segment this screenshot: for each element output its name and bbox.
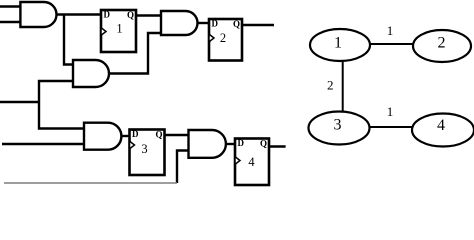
svg-text:3: 3 (141, 142, 147, 156)
wire input B to G1 (0, 21, 20, 23)
wire G2 output to FF2 D (198, 22, 210, 24)
svg-text:4: 4 (437, 117, 445, 134)
AND gate G2 (161, 11, 198, 35)
svg-text:D: D (238, 138, 245, 148)
svg-text:Q: Q (260, 138, 267, 148)
wire G1 output branch down to G3 input (64, 15, 73, 65)
svg-text:D: D (212, 18, 219, 28)
wire G1 output to FF1 D (57, 13, 102, 15)
FF4 clock input (235, 157, 240, 165)
svg-text:3: 3 (334, 116, 342, 133)
AND gate G3 (73, 60, 109, 87)
svg-text:1: 1 (334, 34, 342, 51)
svg-text:Q: Q (127, 10, 134, 20)
wire clock riser to G5 input (177, 151, 189, 184)
graph edge 1-3 (342, 61, 344, 112)
graph edge 1-2 (370, 43, 413, 45)
svg-text:Q: Q (155, 129, 162, 139)
svg-text:2: 2 (438, 34, 446, 51)
wire G3 output up to G2 input (109, 33, 161, 74)
flip-flop FF2 (209, 19, 242, 61)
svg-text:1: 1 (116, 22, 122, 36)
wire G4 output to FF3 D (121, 135, 129, 137)
AND gate G1 (20, 2, 56, 27)
AND gate G5 (189, 130, 226, 158)
wire input C (0, 101, 39, 103)
wire input D to G4 (2, 143, 84, 145)
wire FF4 Q output (269, 145, 286, 147)
svg-text:4: 4 (248, 155, 255, 169)
wire FF3 Q to G5 input (165, 134, 189, 136)
wire input A to G1 (0, 5, 20, 7)
svg-text:1: 1 (387, 104, 394, 119)
svg-text:D: D (104, 9, 111, 19)
wire clock line (gray) (4, 182, 177, 184)
FF2 clock input (209, 34, 214, 42)
wire vertical bus to G3 and G4 inputs (39, 81, 84, 129)
svg-text:1: 1 (387, 23, 394, 38)
svg-text:2: 2 (327, 78, 334, 93)
graph node 1 (310, 29, 370, 61)
flip-flop FF3 (130, 130, 165, 176)
FF3 clock input (130, 141, 135, 149)
flip-flop FF4 (235, 139, 269, 186)
svg-text:Q: Q (233, 19, 240, 29)
graph node 4 (412, 114, 474, 147)
AND gate G4 (84, 123, 121, 150)
graph node 2 (413, 30, 471, 62)
svg-text:2: 2 (220, 31, 226, 45)
wire FF2 Q output (242, 24, 274, 26)
flip-flop FF1 (101, 10, 136, 52)
svg-text:D: D (132, 129, 139, 139)
graph node 3 (309, 112, 370, 145)
wire G5 output to FF4 D (226, 143, 235, 145)
graph edge 3-4 (370, 126, 413, 128)
wire FF1 Q to G2 input (136, 14, 161, 16)
FF1 clock input (101, 28, 106, 36)
